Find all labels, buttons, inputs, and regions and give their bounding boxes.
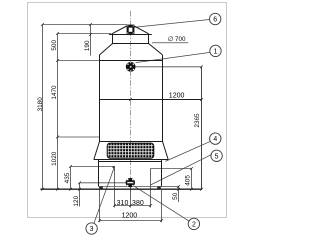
svg-text:6: 6 <box>213 17 217 24</box>
svg-text:3: 3 <box>90 226 94 233</box>
skirt slant R <box>163 142 169 160</box>
leader 3 <box>94 166 115 223</box>
dim line 50 <box>178 187 180 203</box>
fan cyl L <box>112 35 114 44</box>
svg-text:310: 310 <box>117 200 129 207</box>
ext 1200 bottom left <box>99 190 101 222</box>
ext 120 top <box>80 182 127 184</box>
fan cyl R <box>148 35 150 44</box>
seam + dim 1200 top <box>100 99 202 101</box>
basin lip <box>99 161 162 163</box>
svg-text:1200: 1200 <box>122 213 138 220</box>
phi700 label <box>152 42 188 44</box>
balloon 3 circle <box>86 223 97 234</box>
pipe flange item2 <box>126 178 135 187</box>
ext deck level <box>58 33 112 35</box>
leader 1 <box>136 52 210 62</box>
body R <box>162 55 164 142</box>
dim line 3180 <box>42 25 44 190</box>
skirt seam <box>100 141 163 143</box>
svg-text:1200: 1200 <box>169 92 185 99</box>
ext 1200 bottom right <box>161 190 163 222</box>
leaders <box>94 20 212 224</box>
ground line <box>40 188 202 190</box>
svg-text:3180: 3180 <box>37 97 44 112</box>
svg-text:500: 500 <box>51 40 58 51</box>
dim line 405 <box>191 169 193 190</box>
svg-text:5: 5 <box>215 153 219 160</box>
pipe flange item1 (flower) <box>126 62 136 72</box>
ext 310/380 mid <box>130 187 132 208</box>
deck line <box>109 34 152 36</box>
svg-text:2365: 2365 <box>194 113 201 128</box>
ext 435 top <box>71 166 115 168</box>
balloon 1 circle <box>210 45 221 56</box>
leader 4 <box>165 141 210 161</box>
svg-text:435: 435 <box>64 172 71 183</box>
svg-text:190: 190 <box>84 40 91 51</box>
balloon 6 circle <box>210 13 221 24</box>
dim line 2365 <box>201 67 203 189</box>
basin bottom <box>99 186 162 188</box>
flare L <box>100 44 113 55</box>
svg-text:1020: 1020 <box>51 151 58 166</box>
ext 2365 top <box>136 66 202 68</box>
page frame <box>28 3 227 218</box>
basin R <box>161 160 163 187</box>
ext 380 right / pipe5 <box>150 169 152 208</box>
svg-text:4: 4 <box>213 136 217 143</box>
foot L <box>99 187 103 190</box>
shoulder <box>100 60 163 62</box>
dimension texts <box>117 92 185 219</box>
skirt bottom <box>94 159 168 161</box>
centerline <box>130 11 132 192</box>
svg-text:50: 50 <box>172 192 179 200</box>
vent box item6 <box>127 25 135 34</box>
dim line 310 380 <box>115 205 151 207</box>
dim line 435 <box>70 167 72 190</box>
ext 50 top / basin bottom right <box>162 186 179 188</box>
ext 310 left / pipe3 <box>114 167 116 208</box>
ext 405 top <box>151 168 192 170</box>
foot R <box>157 187 161 190</box>
body L <box>99 55 101 142</box>
dim line 120 <box>79 183 81 207</box>
svg-text:1470: 1470 <box>51 85 58 100</box>
dim chain line 500/1470/1020 <box>57 34 59 190</box>
arrow leader3 <box>112 166 115 169</box>
svg-text:380: 380 <box>132 200 144 207</box>
dimension ticks <box>41 23 203 222</box>
balloon 2 circle <box>188 218 199 229</box>
dim line 190 <box>90 25 92 56</box>
leader 5 <box>151 154 212 185</box>
ext shoulder 500/1470 <box>58 60 100 62</box>
cap slant R <box>134 26 149 34</box>
svg-text:2: 2 <box>192 222 196 229</box>
skirt slant L <box>94 142 100 160</box>
flare R <box>149 44 163 55</box>
cap slant L <box>112 26 127 34</box>
svg-text:405: 405 <box>184 175 191 186</box>
svg-text:120: 120 <box>73 195 80 206</box>
ext top of unit <box>43 24 127 26</box>
unit outline <box>94 26 202 187</box>
svg-text:∅ 700: ∅ 700 <box>168 36 186 43</box>
balloons <box>86 13 222 234</box>
basin L <box>98 160 100 187</box>
leader 6 <box>135 20 210 28</box>
svg-text:1: 1 <box>214 49 218 56</box>
louver hatched <box>107 143 154 158</box>
leader 2 <box>134 186 189 221</box>
balloon 4 circle <box>210 133 221 144</box>
dim line 1200 bottom <box>100 220 162 222</box>
deck floor <box>113 43 149 45</box>
balloon 5 circle <box>211 150 222 161</box>
ext 1470/1020 <box>58 136 100 138</box>
